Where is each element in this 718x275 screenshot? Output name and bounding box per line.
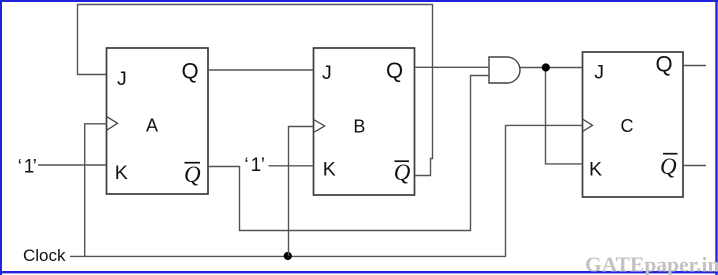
svg-text:K: K [589,159,602,181]
svg-text:GATEpaper.in: GATEpaper.in [585,253,718,275]
svg-text:K: K [323,159,336,181]
junction node on clock line [284,252,292,260]
clock edge wedge C [583,119,593,132]
wire Qbar output of C [683,165,706,167]
svg-text:Q: Q [182,58,199,83]
wire '1' to K of A [38,164,107,166]
wire clock to A [85,124,107,256]
svg-text:Q: Q [656,51,673,76]
label Qbar of C [660,154,678,179]
svg-text:Q: Q [394,160,411,185]
svg-text:Q: Q [386,58,403,83]
clock edge wedge B [314,120,325,133]
wire clock main line [70,125,583,256]
wire AND gate output to J of C [520,67,583,69]
flip-flop C box [583,52,684,197]
AND gate U1 [489,57,520,83]
svg-text:Q: Q [660,154,677,179]
svg-text:C: C [621,116,634,136]
label Qbar of A [184,162,201,187]
wire QbarA to AND gate bottom input [208,76,489,231]
svg-text:Clock: Clock [23,246,66,265]
wire Q output of C [683,65,706,67]
flip-flop A box [107,48,209,194]
svg-text:J: J [594,62,604,84]
svg-text:‘1’: ‘1’ [18,157,37,178]
svg-text:J: J [322,62,332,84]
wire feedback QbarB to J of A (top) [78,5,433,176]
junction node at AND output [542,63,550,71]
wire QB to AND gate top input [415,66,490,68]
svg-text:K: K [115,162,128,184]
svg-text:‘1’: ‘1’ [244,155,265,176]
wire node to K of C [546,68,583,164]
svg-text:B: B [353,116,365,136]
wire '1' to K of B [269,165,314,167]
wire clock to B [289,127,314,257]
label Qbar of B [394,160,411,185]
flip-flop B box [314,48,415,195]
wire QA to J of B [208,69,314,71]
svg-text:J: J [117,68,127,90]
clock edge wedge A [107,116,118,130]
svg-text:A: A [146,115,158,135]
svg-text:Q: Q [184,162,201,187]
